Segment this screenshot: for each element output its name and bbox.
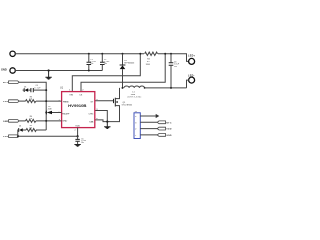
node C3 top junction (170, 53, 172, 55)
svg-text:VDD: VDD (166, 129, 172, 131)
svg-text:10k: 10k (29, 127, 32, 129)
capacitor C3 (169, 54, 180, 88)
svg-text:VIN: VIN (69, 95, 73, 97)
svg-text:16v: 16v (104, 63, 107, 65)
svg-text:3: 3 (135, 122, 136, 124)
svg-text:D2: D2 (48, 106, 50, 108)
wire VIN pin to rail (line A) (72, 54, 140, 92)
wire IC pin (right bottom) to source node (95, 120, 108, 122)
terminal GND (J1-2) (1, 67, 102, 73)
svg-text:GND: GND (62, 121, 67, 123)
wire J2 pin 2 + net flag VDD (140, 127, 172, 130)
diode D1 (120, 53, 135, 88)
svg-text:16v: 16v (81, 142, 84, 144)
resistor R2 (current sense, top) (145, 52, 158, 66)
svg-text:VDD: VDD (75, 126, 80, 128)
svg-text:NTC: NTC (166, 122, 172, 124)
terminal VIN+ (J1-1) (10, 51, 144, 56)
ground symbol on GND rail (45, 69, 51, 79)
connector J2 (134, 111, 140, 139)
wire J2 pin 4 arrow (140, 114, 159, 118)
ground at C5 (74, 145, 80, 147)
wire rail after R2 to LED+ (158, 54, 189, 62)
svg-text:10k: 10k (29, 118, 32, 120)
svg-text:GND: GND (166, 135, 172, 137)
capacitor C1 (87, 53, 97, 72)
svg-text:GND: GND (3, 121, 9, 123)
svg-text:LED+: LED+ (188, 55, 196, 58)
svg-text:1: 1 (135, 135, 136, 137)
svg-text:VDD: VDD (3, 101, 9, 103)
svg-text:GND: GND (1, 67, 7, 71)
node source junction (106, 121, 108, 123)
svg-text:CHG: CHG (89, 113, 94, 115)
svg-text:10k: 10k (29, 99, 32, 101)
svg-text:STPS0540Z: STPS0540Z (124, 63, 135, 65)
capacitor C2 (100, 53, 110, 71)
svg-text:4: 4 (135, 116, 136, 118)
svg-text:16v: 16v (90, 63, 93, 65)
svg-text:1206: 1206 (146, 64, 150, 66)
wire CS pin to rail after R2 (line B) (81, 54, 165, 92)
resistor R5 + diode D4 (row F) (18, 125, 46, 136)
net tag GND (row E) + resistor R4 (3, 116, 62, 123)
ground at MOSFET source (104, 122, 110, 129)
svg-text:D4: D4 (19, 125, 21, 127)
capacitor C5 (75, 136, 86, 144)
net tag PWM (row A) (3, 81, 46, 130)
svg-text:STD2NM60: STD2NM60 (122, 105, 133, 107)
svg-text:0.1uF: 0.1uF (34, 87, 40, 89)
svg-text:MTG: MTG (3, 82, 9, 84)
wire IC pin (right mid) to source node (95, 111, 108, 122)
terminal LED+ (188, 55, 196, 65)
op-amp/IC U1 HV9910B box (60, 86, 95, 127)
diode D3 + capacitor C4 (row B) (23, 85, 48, 92)
net tag VDD (row G) (3, 135, 78, 138)
svg-text:D3: D3 (24, 87, 26, 89)
MOSFET Q1 (95, 88, 132, 122)
svg-text:PWMD: PWMD (63, 101, 69, 103)
svg-text:4148: 4148 (48, 108, 52, 110)
inductor L1 (124, 86, 187, 99)
svg-text:(DR73-330): (DR73-330) (128, 97, 142, 99)
diode D2 (row D) (45, 106, 61, 114)
svg-text:VDD: VDD (3, 136, 9, 138)
wire J2 pin 1 + net flag GND (140, 134, 172, 137)
terminal LED- (187, 74, 195, 88)
wire J2 pin 3 + net flag PWM (140, 121, 172, 124)
svg-text:TAB: TAB (89, 120, 94, 123)
net tag VDD (row C) + resistor R3 (3, 96, 62, 103)
pin numbers U1 (59, 90, 99, 132)
wire VDD pin down (77, 128, 79, 137)
svg-text:HV9910B: HV9910B (68, 103, 87, 108)
svg-text:2: 2 (135, 129, 136, 131)
svg-text:CS: CS (79, 95, 83, 97)
svg-text:25v: 25v (174, 66, 177, 68)
node drain / D1 anode junction (122, 87, 124, 89)
svg-text:RAMP: RAMP (62, 113, 69, 116)
